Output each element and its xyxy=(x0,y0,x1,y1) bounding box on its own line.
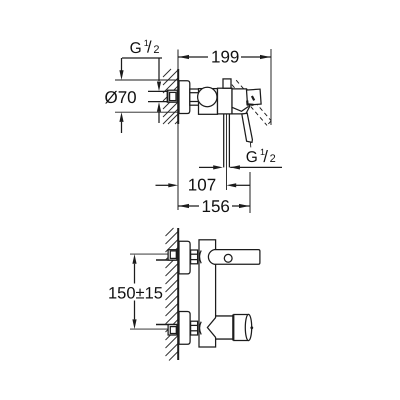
body column xyxy=(199,240,216,347)
G1/2 top label leader xyxy=(122,57,162,59)
svg-text:G: G xyxy=(130,40,142,57)
cone transition xyxy=(207,316,217,340)
cap tick xyxy=(252,96,254,100)
svg-text:Ø70: Ø70 xyxy=(105,88,137,107)
svg-text:G: G xyxy=(246,149,258,166)
knob neck xyxy=(216,316,234,339)
top port square xyxy=(223,79,231,88)
dashed lever (raised position) xyxy=(232,80,271,125)
O70 dimension xyxy=(115,79,178,81)
outlet centerline xyxy=(226,114,228,190)
wall line xyxy=(177,69,179,124)
spout arm xyxy=(215,250,260,265)
107 dimension xyxy=(156,184,170,186)
supply stub upper xyxy=(156,259,177,261)
knob screw dot xyxy=(250,326,253,329)
label G1/2 top xyxy=(130,38,160,57)
extension line wall (shared 199/107/156) xyxy=(177,50,179,211)
svg-text:/: / xyxy=(263,148,268,166)
flange escutcheon xyxy=(179,81,190,114)
svg-text:199: 199 xyxy=(211,48,239,67)
svg-text:156: 156 xyxy=(202,197,230,216)
solid lever xyxy=(242,113,253,142)
cap corner thick xyxy=(247,101,253,105)
flange escutcheon lower xyxy=(179,312,190,345)
svg-text:150±15: 150±15 xyxy=(108,285,163,303)
ball joint xyxy=(198,87,217,106)
knob end cap ellipse xyxy=(245,314,251,340)
wall hatching xyxy=(163,69,178,124)
union nut behind wall xyxy=(167,90,177,102)
ball joint arc lower xyxy=(200,322,202,335)
hex adapter xyxy=(190,89,199,105)
wall hatching bottom xyxy=(166,228,179,361)
wall line bottom xyxy=(177,228,179,360)
svg-text:107: 107 xyxy=(188,176,216,195)
lever block C xyxy=(232,89,249,114)
cap D xyxy=(247,89,262,105)
G1/2 lower label leaders xyxy=(199,166,214,168)
svg-text:2: 2 xyxy=(153,44,159,56)
svg-text:2: 2 xyxy=(270,153,276,165)
wall nut lower xyxy=(168,325,177,335)
label G1/2 lower xyxy=(246,147,276,166)
knob body xyxy=(234,315,248,340)
150±15 dimension xyxy=(130,253,168,255)
flange escutcheon upper xyxy=(179,241,190,274)
arm hub xyxy=(208,250,215,265)
body rect B cartridge xyxy=(218,88,233,114)
outlet pipe down xyxy=(223,114,225,167)
arm hole xyxy=(224,254,232,262)
ball joint arc upper xyxy=(200,251,202,264)
supply stub lower xyxy=(156,324,177,326)
hex union nut upper xyxy=(191,250,198,264)
156 dimension xyxy=(249,172,251,213)
wall nut upper xyxy=(168,250,177,260)
199 dimension xyxy=(270,49,272,125)
body rect A xyxy=(199,89,218,115)
supply pipe behind wall xyxy=(148,90,168,92)
svg-text:/: / xyxy=(147,39,152,57)
hex union nut lower xyxy=(191,321,198,335)
